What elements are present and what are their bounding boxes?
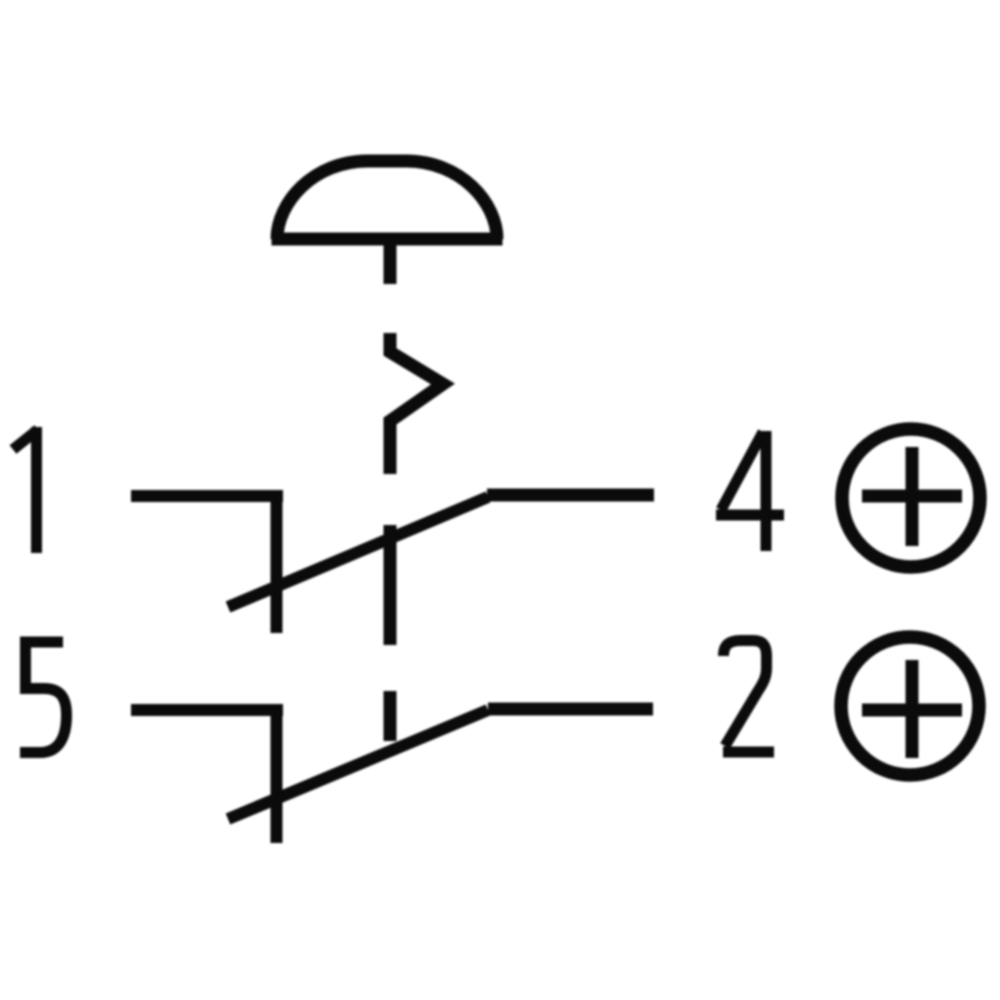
pushbutton actuator head S1 (mushroom dome) [272,161,503,239]
moving contact bridge (contact 1-4, NO) [228,497,488,607]
wire: terminal 4 lead [487,489,654,502]
fixed contact post (terminal 1) [271,490,283,633]
fixed contact post (terminal 5) [271,704,283,843]
momentary-action chevron on actuator linkage [390,333,443,474]
wire: terminal 5 lead [131,704,283,716]
pin label 2 [723,641,774,753]
actuator stem [384,240,397,284]
terminal screw symbol (terminal 2) [841,637,979,775]
actuator linkage dash (crossing upper moving contact) [384,525,397,645]
terminal screw symbol (terminal 4) [842,429,980,567]
actuator linkage dash (to lower moving contact) [384,691,397,741]
moving contact bridge (contact 5-2, NO) [228,710,488,819]
pin label 5 [20,642,67,753]
wire: terminal 1 lead [131,490,283,502]
pin label 4 [716,431,784,551]
wire: terminal 2 lead [488,703,653,716]
pin label 1 [13,430,38,450]
